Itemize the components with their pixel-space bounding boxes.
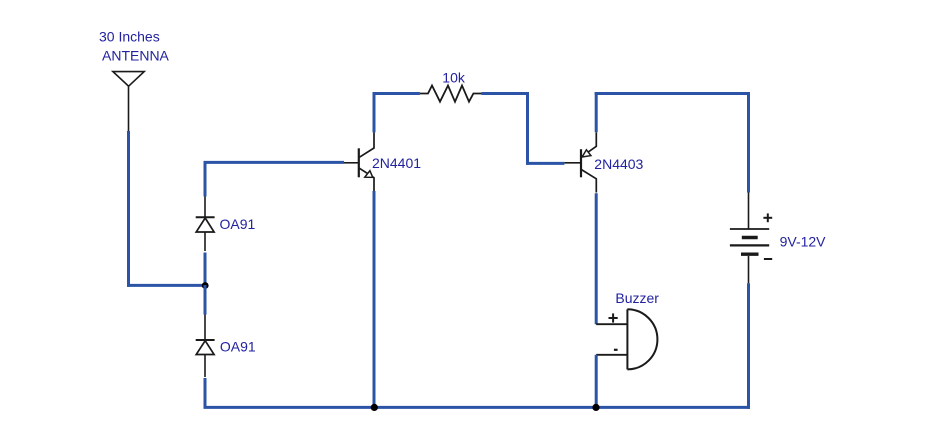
label Buzzer	[615, 290, 659, 306]
svg-text:ANTENNA: ANTENNA	[102, 48, 170, 64]
wire down to Q2 base	[526, 92, 529, 165]
svg-text:OA91: OA91	[220, 216, 256, 232]
battery B1	[730, 193, 769, 284]
buzzer minus sign	[614, 349, 618, 351]
wire Q2 emitter up	[595, 92, 598, 132]
label 2N4403	[594, 156, 643, 172]
transistor Q1 2N4401	[344, 132, 374, 192]
battery plus sign	[763, 213, 772, 222]
label 10k	[442, 69, 466, 85]
svg-text:10k: 10k	[442, 69, 466, 85]
wire Q1 collector up	[373, 92, 376, 132]
label 9V-12V	[780, 233, 827, 249]
junction dot Q1 emitter rail	[371, 404, 378, 411]
svg-text:Buzzer: Buzzer	[615, 290, 659, 306]
svg-text:30 Inches: 30 Inches	[99, 29, 160, 45]
wire top left to resistor	[373, 92, 420, 95]
wire battery to bottom rail	[747, 283, 750, 409]
wire resistor to corner	[482, 92, 530, 95]
wire bottom rail	[204, 406, 751, 409]
wire Q1 base horizontal	[204, 161, 345, 164]
antenna symbol	[113, 72, 144, 131]
wire between node A and D2	[204, 285, 207, 315]
junction dot buzzer rail	[592, 404, 599, 411]
buzzer plus sign	[609, 313, 618, 322]
label 2N4401	[372, 155, 421, 171]
wire down to battery top	[747, 92, 750, 193]
svg-text:2N4403: 2N4403	[594, 156, 643, 172]
node A junction dot	[202, 282, 209, 289]
transistor Q2 2N4403	[564, 132, 596, 192]
wire horizontal to Q2 base	[526, 162, 564, 165]
battery minus sign	[764, 258, 772, 260]
diode D1 OA91	[196, 197, 215, 252]
label OA91 bottom	[220, 339, 256, 355]
svg-text:OA91: OA91	[220, 339, 256, 355]
resistor R1 10k	[420, 86, 482, 102]
label ANTENNA	[102, 48, 170, 64]
wire top rail right	[595, 92, 750, 95]
wire antenna vertical	[127, 131, 130, 287]
svg-text:9V-12V: 9V-12V	[780, 233, 827, 249]
wire Q1 emitter to bottom rail	[373, 191, 376, 407]
label 30 Inches	[99, 29, 160, 45]
wire Q2 collector to buzzer plus	[595, 193, 598, 324]
wire D2 to bottom rail	[204, 378, 207, 406]
label OA91 top	[220, 216, 256, 232]
wire between D1 and node A	[204, 253, 207, 287]
wire antenna horizontal to node A	[127, 284, 205, 287]
diode D2 OA91	[196, 315, 215, 378]
wire buzzer minus to bottom rail	[595, 355, 598, 408]
svg-text:2N4401: 2N4401	[372, 155, 421, 171]
wire base branch vertical	[204, 161, 207, 197]
buzzer LS1	[596, 309, 657, 369]
